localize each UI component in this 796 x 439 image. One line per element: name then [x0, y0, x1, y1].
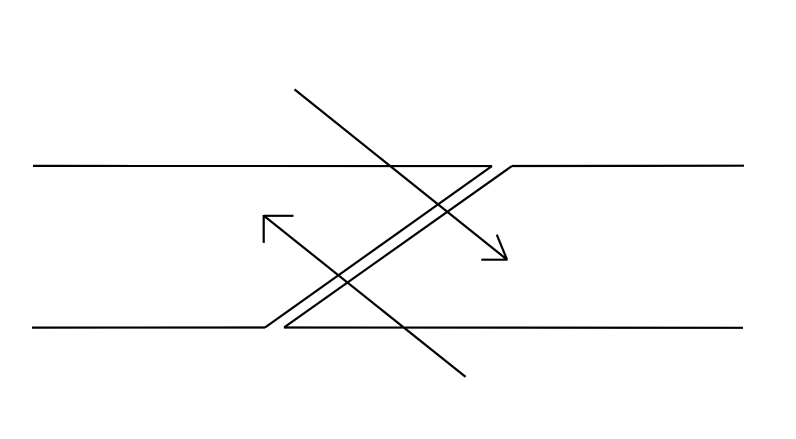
wire crossover diagonal lower: [284, 166, 512, 328]
arrow pointing down-right shaft: [295, 89, 508, 259]
wire top line right segment: [512, 165, 744, 168]
arrow pointing down-right head: [481, 235, 507, 260]
wire bottom line left segment: [32, 326, 265, 328]
arrow pointing up-left head: [264, 215, 294, 243]
arrow pointing up-left shaft: [264, 216, 465, 377]
wire crossover diagonal upper: [265, 166, 492, 328]
wire bottom line right segment: [284, 326, 743, 328]
wire top line left segment: [33, 165, 492, 167]
